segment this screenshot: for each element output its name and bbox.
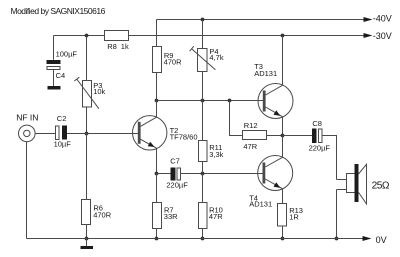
node output junction (T3 emitter / T4 collector / R12 / C8): [281, 134, 285, 138]
svg-text:10µF: 10µF: [54, 139, 72, 148]
0V terminal arrow: [363, 235, 387, 245]
capacitor C2 10µF: [54, 114, 72, 149]
svg-text:10k: 10k: [93, 87, 105, 96]
ground below 0V rail: [81, 239, 94, 250]
node R6 bottom junction: [85, 237, 89, 241]
svg-text:-30V: -30V: [373, 31, 392, 41]
svg-text:C8: C8: [312, 119, 322, 128]
svg-text:0V: 0V: [376, 235, 387, 245]
svg-text:TF78/60: TF78/60: [170, 132, 198, 141]
node speaker bottom junction: [335, 237, 339, 241]
NF IN connector: [16, 113, 38, 142]
wire P4 column: [202, 20, 204, 101]
wire R10 column: [202, 174, 204, 239]
resistor R13 1R: [278, 204, 303, 227]
svg-text:1R: 1R: [289, 212, 299, 221]
wire R13 to 0V rail: [282, 226, 284, 239]
transistor T4 AD131: [249, 136, 293, 209]
svg-text:AD131: AD131: [254, 69, 277, 78]
potentiometer P4 4,7k: [190, 46, 224, 71]
resistor R7 33R: [153, 203, 179, 229]
svg-text:-40V: -40V: [373, 14, 392, 24]
transistor T3 AD131: [254, 36, 293, 136]
node T2 collector junction: [155, 99, 159, 103]
svg-text:100µF: 100µF: [56, 50, 78, 59]
node R11/R10 junction: [201, 172, 205, 176]
node R12 tap junction on base line: [228, 99, 232, 103]
node R7 bottom junction: [155, 237, 159, 241]
resistor R6 470R: [82, 200, 112, 225]
svg-text:25Ω: 25Ω: [372, 180, 390, 191]
node P4 top junction: [201, 18, 205, 22]
capacitor C7 220µF: [166, 157, 188, 190]
node T3 collector junction: [281, 34, 285, 38]
-30V terminal arrow: [364, 31, 392, 41]
wire -30V rail left segment: [54, 36, 105, 60]
wire R12 tap jog: [230, 101, 243, 136]
wire R7 column: [156, 174, 158, 239]
wire -30V rail right segment: [129, 35, 365, 37]
svg-text:C7: C7: [170, 157, 180, 166]
wire R12 to output node: [267, 135, 283, 137]
svg-text:47R: 47R: [209, 212, 223, 221]
wire base line T2 collector to T3 base: [157, 100, 264, 102]
svg-text:220µF: 220µF: [309, 143, 331, 152]
wire T2 emitter to C7: [157, 173, 171, 175]
node T2 emitter / C7 junction: [155, 172, 159, 176]
svg-text:C2: C2: [57, 114, 67, 123]
wire C8 to speaker column: [322, 136, 337, 180]
resistor R12 47R: [243, 121, 267, 151]
svg-text:220µF: 220µF: [166, 181, 188, 190]
wire R6 column: [86, 134, 88, 239]
transistor T2 TF78/60: [133, 101, 198, 174]
node P3 top junction: [85, 34, 89, 38]
title note: [11, 6, 106, 16]
-40V terminal arrow: [364, 14, 392, 24]
ground below C4: [48, 86, 61, 90]
wire NF IN down to 0V rail: [26, 142, 28, 239]
resistor R11 3,3k: [199, 141, 224, 162]
wire 0V rail: [27, 238, 364, 240]
svg-text:AD131: AD131: [249, 200, 272, 209]
node P3 wiper / base wire junction: [85, 132, 89, 136]
potentiometer P3 10k: [74, 77, 105, 109]
node R10 bottom junction: [201, 237, 205, 241]
svg-text:470R: 470R: [93, 210, 112, 219]
wire output node to C8: [283, 135, 313, 137]
wire R9 to T2 collector node: [156, 73, 158, 101]
svg-text:33R: 33R: [164, 212, 178, 221]
node R13 bottom junction: [281, 237, 285, 241]
capacitor C8 220µF: [309, 119, 331, 153]
wire R11 column: [202, 101, 204, 174]
wire C7 to R10/T4 base node: [181, 173, 264, 175]
svg-text:3,3k: 3,3k: [209, 150, 223, 159]
svg-text:470R: 470R: [164, 58, 183, 67]
svg-text:R12: R12: [244, 121, 258, 130]
svg-text:1k: 1k: [121, 42, 129, 51]
wire speaker to 0V rail: [336, 190, 338, 239]
wire NF IN to C2: [35, 133, 55, 135]
wire C2 to T2 base: [67, 133, 138, 135]
svg-text:C4: C4: [56, 71, 66, 80]
resistor R9 470R: [153, 47, 183, 73]
wire -40V rail: [157, 19, 365, 21]
capacitor C4 100µF: [47, 50, 78, 86]
svg-text:R8: R8: [107, 42, 117, 51]
resistor R8 1k: [105, 31, 129, 51]
speaker 25Ω: [337, 164, 390, 204]
svg-text:4,7k: 4,7k: [209, 53, 223, 62]
resistor R10 47R: [199, 203, 224, 229]
wire P3 column: [86, 36, 88, 134]
svg-text:47R: 47R: [243, 142, 257, 151]
svg-text:NF IN: NF IN: [16, 113, 38, 123]
svg-text:Modified by SAGNIX150616: Modified by SAGNIX150616: [11, 6, 106, 16]
node P4/R11 junction on base line: [201, 99, 205, 103]
wire R9 column top: [156, 20, 158, 47]
